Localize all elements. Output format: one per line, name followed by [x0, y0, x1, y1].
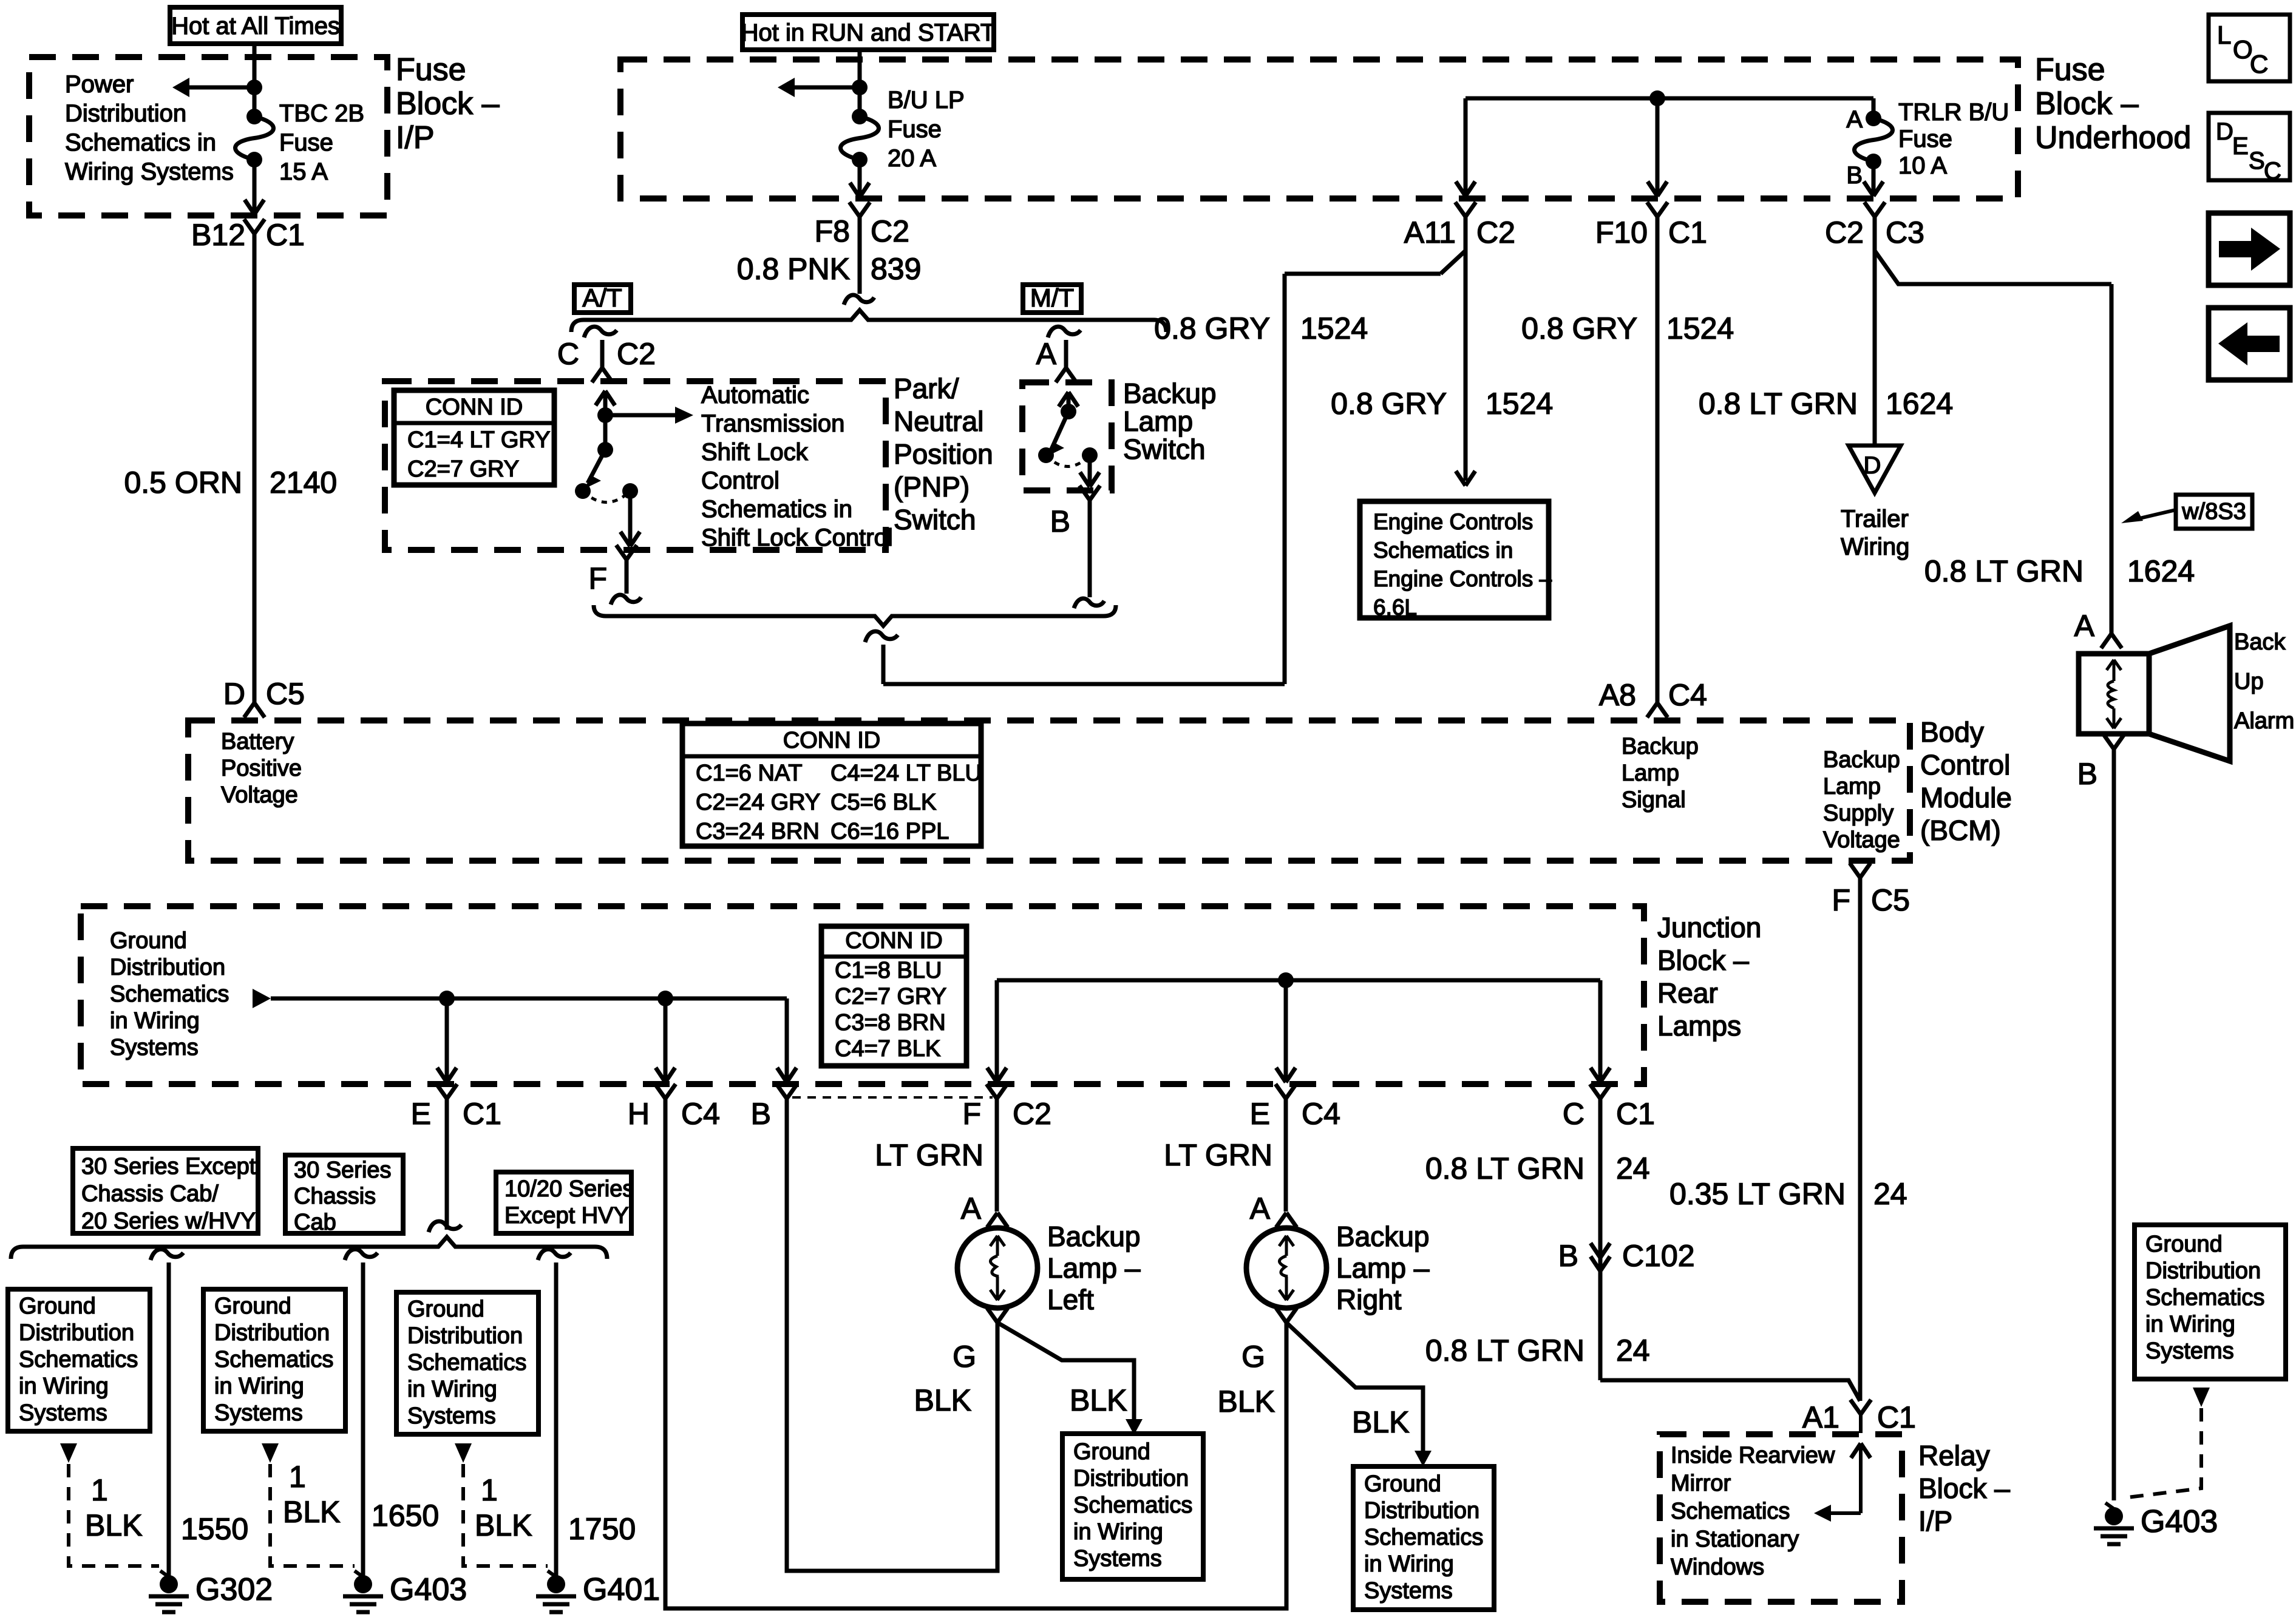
svg-text:F: F — [962, 1097, 981, 1131]
svg-text:Systems: Systems — [19, 1400, 107, 1426]
svg-text:L: L — [2217, 21, 2231, 49]
svg-text:Lamp –: Lamp – — [1047, 1252, 1141, 1284]
svg-text:Alarm: Alarm — [2234, 708, 2294, 734]
svg-text:Lamps: Lamps — [1657, 1010, 1741, 1042]
svg-text:Schematics: Schematics — [1364, 1525, 1483, 1550]
svg-text:Shift Lock Control: Shift Lock Control — [701, 524, 893, 551]
svg-text:20 A: 20 A — [888, 145, 936, 172]
svg-text:Ground: Ground — [1073, 1439, 1150, 1465]
svg-text:in Wiring: in Wiring — [2145, 1312, 2235, 1337]
svg-text:Backup: Backup — [1622, 734, 1699, 759]
svg-text:Transmission: Transmission — [701, 410, 844, 437]
svg-text:C2: C2 — [1013, 1097, 1051, 1131]
svg-text:A8: A8 — [1599, 678, 1636, 712]
svg-text:1550: 1550 — [181, 1512, 248, 1546]
svg-text:C: C — [2264, 158, 2281, 185]
svg-text:A: A — [961, 1191, 982, 1225]
svg-text:Engine Controls –: Engine Controls – — [1373, 566, 1552, 591]
svg-text:Systems: Systems — [2145, 1338, 2234, 1364]
svg-text:24: 24 — [1616, 1334, 1650, 1368]
svg-text:in Wiring: in Wiring — [407, 1377, 497, 1402]
svg-text:w/8S3: w/8S3 — [2181, 499, 2246, 524]
svg-text:Windows: Windows — [1671, 1554, 1764, 1580]
svg-text:BLK: BLK — [1217, 1384, 1275, 1418]
svg-text:Lamp: Lamp — [1123, 405, 1193, 437]
svg-text:F: F — [588, 561, 607, 595]
svg-text:Lamp –: Lamp – — [1336, 1252, 1430, 1284]
svg-text:C2: C2 — [617, 337, 656, 371]
svg-text:Chassis Cab/: Chassis Cab/ — [81, 1181, 219, 1207]
svg-text:Distribution: Distribution — [19, 1320, 134, 1346]
svg-text:in Wiring: in Wiring — [1073, 1519, 1163, 1545]
svg-text:G: G — [1241, 1340, 1265, 1374]
svg-text:M/T: M/T — [1030, 283, 1074, 312]
svg-text:C2: C2 — [1476, 215, 1515, 249]
svg-text:C2=24 GRY: C2=24 GRY — [696, 790, 820, 815]
svg-text:Ground: Ground — [214, 1293, 291, 1319]
svg-text:1624: 1624 — [2127, 554, 2195, 588]
svg-text:C1=6 NAT: C1=6 NAT — [696, 761, 803, 786]
svg-text:1: 1 — [289, 1460, 306, 1494]
svg-text:BLK: BLK — [1070, 1383, 1127, 1417]
svg-text:2140: 2140 — [270, 466, 337, 500]
svg-text:CONN ID: CONN ID — [783, 728, 880, 753]
svg-text:Switch: Switch — [1123, 433, 1205, 465]
svg-text:Schematics in: Schematics in — [701, 496, 852, 523]
svg-text:C3: C3 — [1886, 215, 1924, 249]
svg-text:C2=7 GRY: C2=7 GRY — [407, 456, 519, 482]
svg-text:0.8 LT GRN: 0.8 LT GRN — [1924, 554, 2084, 588]
svg-text:C1: C1 — [1668, 215, 1707, 249]
svg-text:G403: G403 — [2141, 1504, 2218, 1539]
svg-text:E: E — [2232, 133, 2249, 160]
svg-text:Block –: Block – — [2035, 86, 2139, 121]
svg-text:C102: C102 — [1622, 1239, 1695, 1273]
svg-text:Ground: Ground — [19, 1293, 96, 1319]
svg-text:Ground: Ground — [1364, 1471, 1441, 1497]
svg-text:Schematics: Schematics — [214, 1347, 333, 1372]
svg-text:1: 1 — [91, 1473, 108, 1507]
svg-text:Engine Controls: Engine Controls — [1373, 509, 1533, 534]
svg-text:C4: C4 — [1302, 1097, 1340, 1131]
svg-text:15 A: 15 A — [279, 158, 328, 185]
svg-text:Except HVY: Except HVY — [504, 1203, 629, 1229]
svg-text:Backup: Backup — [1047, 1221, 1140, 1252]
svg-text:CONN ID: CONN ID — [845, 928, 942, 954]
svg-text:BLK: BLK — [475, 1508, 532, 1542]
svg-text:CONN ID: CONN ID — [426, 395, 523, 420]
svg-text:C2=7 GRY: C2=7 GRY — [835, 984, 946, 1009]
svg-text:Backup: Backup — [1823, 747, 1900, 773]
svg-text:Underhood: Underhood — [2035, 120, 2191, 155]
svg-text:B12: B12 — [191, 218, 245, 252]
svg-text:Systems: Systems — [1364, 1578, 1453, 1604]
svg-text:C3=8 BRN: C3=8 BRN — [835, 1010, 946, 1035]
svg-text:G403: G403 — [390, 1572, 467, 1607]
svg-text:D: D — [2216, 118, 2233, 145]
svg-text:Lamp: Lamp — [1823, 774, 1881, 799]
svg-text:F10: F10 — [1595, 215, 1648, 249]
svg-text:B: B — [1050, 504, 1070, 538]
svg-text:C4=7 BLK: C4=7 BLK — [835, 1036, 940, 1062]
svg-text:C2: C2 — [1825, 215, 1864, 249]
svg-text:E: E — [1250, 1097, 1270, 1131]
svg-text:Automatic: Automatic — [701, 382, 809, 408]
svg-text:BLK: BLK — [85, 1508, 143, 1542]
svg-text:Park/: Park/ — [894, 373, 959, 404]
svg-text:Systems: Systems — [214, 1400, 303, 1426]
svg-text:D: D — [1864, 452, 1881, 479]
svg-text:C1: C1 — [463, 1097, 501, 1131]
svg-text:Distribution: Distribution — [1073, 1466, 1189, 1491]
svg-text:Left: Left — [1047, 1284, 1094, 1315]
svg-text:C4=24 LT BLU: C4=24 LT BLU — [830, 761, 982, 786]
svg-text:Wiring: Wiring — [1841, 534, 1909, 560]
svg-text:TRLR B/U: TRLR B/U — [1898, 99, 2009, 126]
svg-text:BLK: BLK — [1352, 1405, 1410, 1439]
svg-text:10 A: 10 A — [1898, 152, 1947, 179]
svg-text:C1=4 LT GRY: C1=4 LT GRY — [407, 427, 551, 453]
svg-text:1650: 1650 — [372, 1499, 439, 1533]
svg-text:Neutral: Neutral — [894, 405, 983, 437]
svg-text:839: 839 — [871, 252, 921, 286]
svg-text:0.8 LT GRN: 0.8 LT GRN — [1425, 1151, 1584, 1185]
svg-text:C5: C5 — [1871, 883, 1910, 917]
svg-text:Distribution: Distribution — [2145, 1258, 2261, 1284]
svg-text:A: A — [2074, 609, 2095, 643]
svg-text:G401: G401 — [583, 1572, 660, 1607]
svg-text:C: C — [2250, 50, 2268, 78]
svg-text:Hot at All Times: Hot at All Times — [171, 13, 340, 39]
svg-text:Block –: Block – — [1918, 1473, 2010, 1504]
svg-text:1624: 1624 — [1886, 387, 1953, 421]
svg-text:Position: Position — [894, 438, 993, 470]
svg-text:B: B — [751, 1097, 771, 1131]
svg-text:B: B — [1846, 162, 1863, 189]
svg-text:30 Series: 30 Series — [294, 1157, 392, 1183]
svg-text:C: C — [1563, 1097, 1584, 1131]
svg-text:Block –: Block – — [396, 86, 500, 121]
svg-text:Schematics: Schematics — [19, 1347, 138, 1372]
svg-text:TBC 2B: TBC 2B — [279, 100, 364, 127]
svg-text:Supply: Supply — [1823, 801, 1894, 826]
svg-text:in Stationary: in Stationary — [1671, 1527, 1799, 1552]
svg-text:0.8 LT GRN: 0.8 LT GRN — [1425, 1334, 1584, 1368]
svg-text:in Wiring: in Wiring — [110, 1008, 200, 1034]
svg-text:Distribution: Distribution — [110, 955, 225, 980]
svg-text:Signal: Signal — [1622, 787, 1686, 813]
svg-text:LT GRN: LT GRN — [1164, 1138, 1272, 1172]
svg-text:Lamp: Lamp — [1622, 761, 1679, 786]
svg-text:E: E — [411, 1097, 431, 1131]
svg-text:Schematics: Schematics — [407, 1350, 526, 1375]
svg-text:Schematics: Schematics — [110, 981, 229, 1007]
svg-text:F8: F8 — [815, 214, 850, 248]
svg-text:C3=24 BRN: C3=24 BRN — [696, 819, 820, 844]
svg-text:(BCM): (BCM) — [1920, 815, 2001, 846]
svg-text:Control: Control — [1920, 749, 2010, 781]
svg-text:1524: 1524 — [1300, 311, 1368, 345]
svg-text:0.5 ORN: 0.5 ORN — [124, 466, 242, 500]
svg-text:Ground: Ground — [2145, 1232, 2223, 1257]
svg-text:6.6L: 6.6L — [1373, 595, 1417, 620]
svg-text:Fuse: Fuse — [279, 129, 333, 156]
svg-text:Schematics in: Schematics in — [1373, 538, 1513, 563]
svg-text:C1: C1 — [1616, 1097, 1655, 1131]
svg-text:Relay: Relay — [1918, 1440, 1990, 1471]
svg-text:Distribution: Distribution — [1364, 1498, 1479, 1523]
svg-text:F: F — [1832, 883, 1850, 917]
svg-text:Distribution: Distribution — [214, 1320, 330, 1346]
svg-text:A: A — [1250, 1191, 1271, 1225]
svg-text:LT GRN: LT GRN — [875, 1138, 983, 1172]
svg-text:Module: Module — [1920, 782, 2012, 813]
svg-text:(PNP): (PNP) — [894, 471, 970, 503]
svg-text:C1: C1 — [1877, 1400, 1916, 1434]
svg-text:D: D — [223, 677, 245, 711]
svg-text:Systems: Systems — [1073, 1546, 1162, 1571]
svg-text:C5=6 BLK: C5=6 BLK — [830, 790, 936, 815]
svg-text:in Wiring: in Wiring — [214, 1374, 304, 1399]
svg-text:Ground: Ground — [407, 1296, 484, 1322]
svg-text:Schematics: Schematics — [2145, 1285, 2264, 1310]
svg-text:A: A — [1846, 106, 1863, 133]
svg-text:Positive: Positive — [221, 756, 302, 781]
svg-text:S: S — [2249, 147, 2265, 174]
svg-text:Schematics in: Schematics in — [65, 129, 216, 156]
svg-text:B: B — [1558, 1239, 1578, 1273]
svg-text:A: A — [1036, 337, 1057, 371]
svg-text:1: 1 — [481, 1473, 498, 1507]
svg-text:in Wiring: in Wiring — [1364, 1551, 1454, 1577]
svg-text:B/U LP: B/U LP — [888, 87, 965, 114]
svg-text:1524: 1524 — [1486, 387, 1553, 421]
svg-text:A/T: A/T — [582, 283, 622, 312]
svg-text:24: 24 — [1616, 1151, 1650, 1185]
svg-text:G: G — [953, 1340, 976, 1374]
svg-text:Voltage: Voltage — [221, 782, 298, 808]
svg-text:Fuse: Fuse — [2035, 52, 2105, 87]
svg-text:Backup: Backup — [1336, 1221, 1429, 1252]
svg-text:Voltage: Voltage — [1823, 827, 1900, 853]
svg-text:BLK: BLK — [283, 1495, 341, 1529]
svg-text:30 Series Except: 30 Series Except — [81, 1154, 256, 1179]
svg-text:Inside Rearview: Inside Rearview — [1671, 1443, 1835, 1468]
svg-text:Switch: Switch — [894, 504, 976, 535]
svg-text:C4: C4 — [681, 1097, 720, 1131]
svg-text:G302: G302 — [195, 1572, 273, 1607]
svg-text:C2: C2 — [871, 214, 909, 248]
svg-text:0.8 LT GRN: 0.8 LT GRN — [1699, 387, 1858, 421]
svg-text:Block –: Block – — [1657, 944, 1749, 976]
svg-text:A1: A1 — [1802, 1400, 1839, 1434]
svg-text:Hot in RUN and START: Hot in RUN and START — [741, 19, 996, 46]
svg-text:10/20 Series: 10/20 Series — [504, 1176, 634, 1202]
svg-text:Rear: Rear — [1657, 977, 1718, 1009]
svg-text:Up: Up — [2234, 669, 2264, 694]
svg-text:Back: Back — [2234, 629, 2286, 655]
svg-text:C5: C5 — [266, 677, 305, 711]
svg-text:Battery: Battery — [221, 729, 294, 754]
svg-text:B: B — [2077, 757, 2097, 791]
svg-text:Mirror: Mirror — [1671, 1471, 1731, 1496]
svg-text:Trailer: Trailer — [1841, 506, 1909, 532]
svg-text:C6=16 PPL: C6=16 PPL — [830, 819, 949, 844]
svg-text:Ground: Ground — [110, 928, 187, 954]
svg-text:0.8 PNK: 0.8 PNK — [737, 252, 850, 286]
svg-text:20 Series w/HVY: 20 Series w/HVY — [81, 1208, 256, 1234]
svg-text:Junction: Junction — [1657, 912, 1761, 943]
svg-text:C1=8 BLU: C1=8 BLU — [835, 958, 942, 983]
svg-text:C1: C1 — [266, 218, 305, 252]
svg-text:H: H — [628, 1097, 650, 1131]
svg-text:Fuse: Fuse — [888, 116, 942, 143]
svg-text:0.8 GRY: 0.8 GRY — [1154, 311, 1270, 345]
svg-text:Fuse: Fuse — [396, 52, 466, 87]
svg-text:1524: 1524 — [1666, 311, 1734, 345]
svg-text:A11: A11 — [1404, 215, 1456, 249]
svg-text:Shift Lock: Shift Lock — [701, 439, 809, 466]
svg-text:0.8 GRY: 0.8 GRY — [1331, 387, 1447, 421]
svg-text:in Wiring: in Wiring — [19, 1374, 109, 1399]
svg-text:0.35 LT GRN: 0.35 LT GRN — [1669, 1177, 1846, 1211]
svg-text:Cab: Cab — [294, 1210, 336, 1235]
svg-text:Right: Right — [1336, 1284, 1402, 1315]
svg-text:I/P: I/P — [396, 120, 435, 155]
svg-text:Schematics: Schematics — [1073, 1493, 1192, 1518]
svg-text:BLK: BLK — [914, 1383, 971, 1417]
svg-text:C4: C4 — [1668, 678, 1707, 712]
svg-text:C: C — [557, 337, 579, 371]
svg-text:I/P: I/P — [1918, 1505, 1952, 1537]
svg-text:Systems: Systems — [407, 1403, 496, 1429]
svg-text:Power: Power — [65, 71, 134, 98]
svg-text:0.8 GRY: 0.8 GRY — [1521, 311, 1637, 345]
svg-text:Systems: Systems — [110, 1035, 199, 1060]
svg-text:Distribution: Distribution — [65, 100, 186, 127]
svg-text:Chassis: Chassis — [294, 1184, 376, 1209]
svg-text:Wiring Systems: Wiring Systems — [65, 158, 234, 185]
svg-text:Schematics: Schematics — [1671, 1499, 1790, 1524]
svg-text:1750: 1750 — [568, 1512, 636, 1546]
svg-text:Body: Body — [1920, 716, 1984, 748]
svg-text:Backup: Backup — [1123, 378, 1216, 409]
svg-text:Control: Control — [701, 467, 779, 494]
svg-text:Distribution: Distribution — [407, 1323, 523, 1349]
svg-text:Fuse: Fuse — [1898, 126, 1952, 152]
svg-text:24: 24 — [1873, 1177, 1907, 1211]
